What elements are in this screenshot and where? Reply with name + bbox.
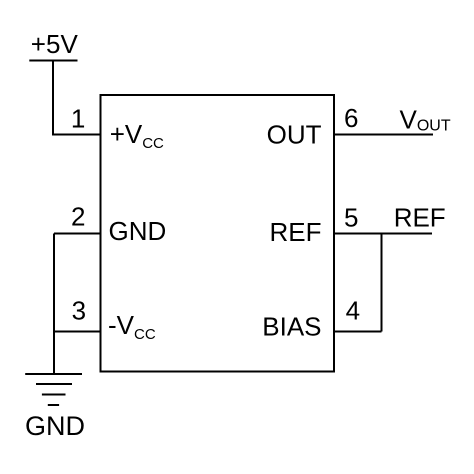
svg-text:REF: REF	[394, 202, 446, 232]
wire from +5V rail down to pin 1	[53, 61, 101, 135]
pin 6 wire	[334, 134, 433, 136]
svg-text:GND: GND	[109, 216, 167, 246]
pin 4 wire	[334, 331, 382, 333]
wire pin5 branch to pin4	[381, 234, 383, 332]
svg-text:+5V: +5V	[31, 29, 79, 59]
svg-text:2: 2	[71, 202, 85, 232]
pin 5 wire	[334, 233, 432, 235]
svg-text:5: 5	[344, 203, 358, 233]
svg-text:OUT: OUT	[267, 120, 322, 150]
wire pin2 to ground	[53, 234, 55, 375]
svg-text:BIAS: BIAS	[262, 312, 321, 342]
IC U1 body	[101, 95, 335, 372]
ground symbol	[25, 374, 82, 405]
pin 3 wire	[54, 331, 101, 333]
power rail bar +5V	[29, 60, 77, 62]
svg-text:REF: REF	[270, 217, 322, 247]
svg-text:3: 3	[72, 296, 86, 326]
pin 2 wire	[54, 233, 101, 235]
svg-text:4: 4	[346, 296, 360, 326]
svg-text:GND: GND	[25, 411, 85, 441]
svg-text:6: 6	[344, 103, 358, 133]
svg-text:1: 1	[71, 104, 85, 134]
